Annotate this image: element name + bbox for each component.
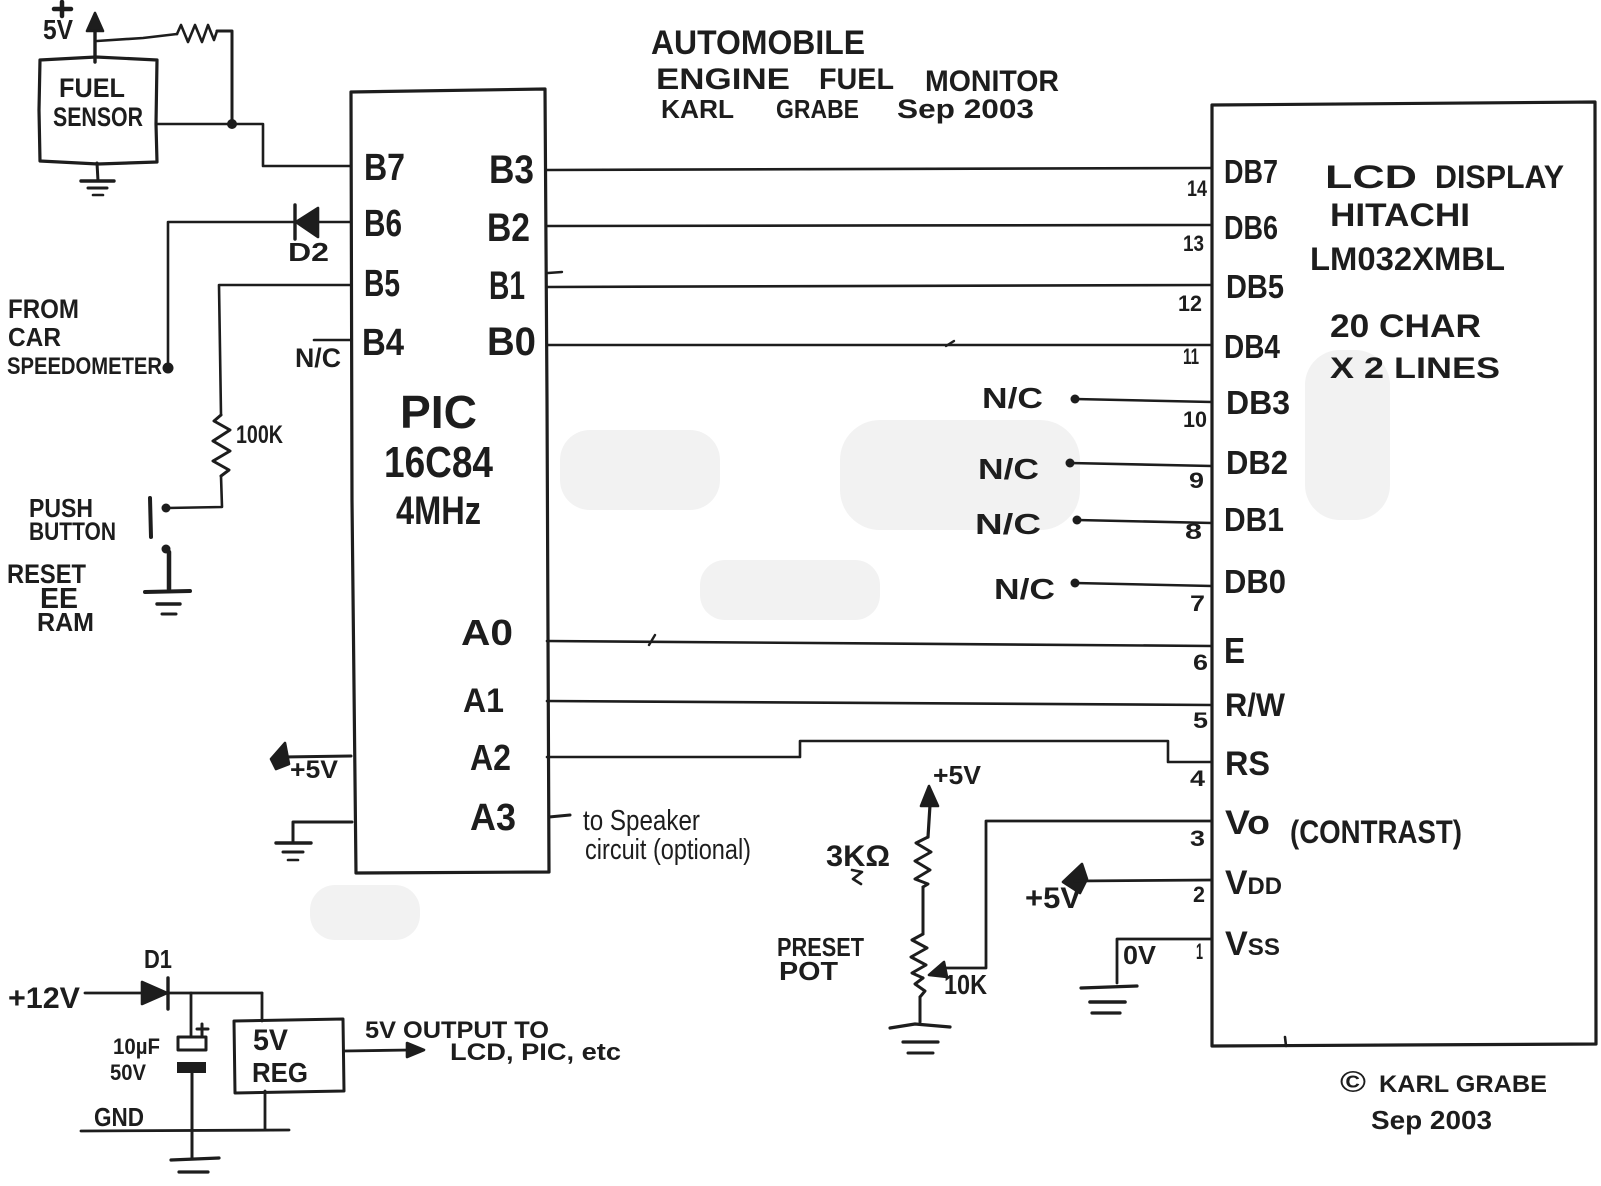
svg-text:DB4: DB4 xyxy=(1224,328,1281,365)
svg-text:circuit (optional): circuit (optional) xyxy=(585,834,751,866)
node N/C dot at DB1 xyxy=(1073,516,1082,525)
potentiometer wiper arrow xyxy=(929,962,947,977)
svg-text:5V: 5V xyxy=(253,1024,288,1057)
wire tick on B0 line xyxy=(946,341,954,346)
wire N/C to DB3 xyxy=(1075,399,1212,402)
svg-text:HITACHI: HITACHI xyxy=(1330,197,1470,233)
svg-text:N/C: N/C xyxy=(994,574,1055,606)
svg-text:20 CHAR: 20 CHAR xyxy=(1330,308,1481,344)
svg-text:9: 9 xyxy=(1189,468,1204,493)
svg-text:+5V: +5V xyxy=(1025,882,1081,915)
resistor R2 100K xyxy=(213,415,230,476)
svg-text:N/C: N/C xyxy=(975,509,1041,541)
regulator U3 5V REG box xyxy=(234,1019,344,1093)
svg-text:©: © xyxy=(1340,1066,1366,1099)
power +5V arrow symbol top-left xyxy=(54,2,103,62)
power +5V arrow above 3K resistor xyxy=(921,786,938,837)
svg-text:11: 11 xyxy=(1183,344,1199,369)
wire nib at B1 pin xyxy=(548,272,562,273)
ground under fuel sensor xyxy=(81,163,114,195)
svg-text:10: 10 xyxy=(1183,407,1207,432)
svg-text:2: 2 xyxy=(1193,882,1205,907)
svg-text:AUTOMOBILE: AUTOMOBILE xyxy=(651,24,865,62)
potentiometer VR1 10K body xyxy=(911,934,927,978)
wire N/C to DB0 xyxy=(1075,583,1212,586)
svg-text:N/C: N/C xyxy=(295,343,341,373)
svg-text:5: 5 xyxy=(1193,708,1208,733)
svg-text:B6: B6 xyxy=(364,203,402,245)
svg-text:X 2 LINES: X 2 LINES xyxy=(1330,352,1500,385)
svg-text:A3: A3 xyxy=(470,797,516,839)
wire A3 side to ground xyxy=(293,822,352,842)
power +5V arrow at VDD xyxy=(1063,864,1212,893)
svg-text:Sep 2003: Sep 2003 xyxy=(1371,1105,1492,1135)
svg-text:Vo: Vo xyxy=(1225,804,1270,842)
ground at VSS xyxy=(1081,986,1137,1013)
wire junction to pin B7 xyxy=(232,124,351,166)
svg-text:FUEL: FUEL xyxy=(819,63,894,96)
svg-text:50V: 50V xyxy=(110,1060,146,1085)
svg-text:DB0: DB0 xyxy=(1224,563,1286,600)
svg-text:14: 14 xyxy=(1187,176,1208,201)
diode D1 xyxy=(142,978,168,1009)
capacitor C1 plus sign xyxy=(197,1024,208,1035)
svg-text:100K: 100K xyxy=(236,421,283,449)
svg-text:KARL: KARL xyxy=(661,94,734,124)
wire B3 to DB7 xyxy=(547,168,1212,170)
svg-text:0V: 0V xyxy=(1123,940,1157,970)
node N/C dot at DB0 xyxy=(1071,579,1080,588)
power +5V arrow at A2 xyxy=(271,743,351,769)
svg-text:to Speaker: to Speaker xyxy=(583,805,700,837)
svg-text:A0: A0 xyxy=(461,612,513,653)
wire VSS to ground xyxy=(1117,939,1212,983)
wire B1 to DB5 xyxy=(547,285,1212,287)
wire D2 to speedometer node xyxy=(168,222,295,367)
squiggle under 3K label xyxy=(852,870,862,884)
svg-text:3KΩ: 3KΩ xyxy=(826,840,890,873)
svg-text:+5V: +5V xyxy=(933,760,982,790)
svg-text:FUEL: FUEL xyxy=(59,73,125,103)
wire B2 to DB6 xyxy=(547,225,1212,226)
svg-text:DB6: DB6 xyxy=(1224,209,1278,246)
fuel sensor box xyxy=(39,57,157,164)
wire GND rail xyxy=(81,1130,289,1131)
wire 5V to pull-up resistor xyxy=(97,34,177,41)
svg-text:LM032XMBL: LM032XMBL xyxy=(1310,241,1505,277)
svg-text:GND: GND xyxy=(94,1102,144,1132)
svg-text:A1: A1 xyxy=(463,682,504,720)
svg-text:5V: 5V xyxy=(43,14,73,45)
wire A0 to E xyxy=(547,641,1212,646)
wire B6 to diode xyxy=(318,221,351,224)
wire junction to capacitor C1 xyxy=(190,993,193,1036)
svg-text:12: 12 xyxy=(1178,291,1202,316)
push button SW1 xyxy=(150,498,171,554)
potentiometer VR1 lower squiggle xyxy=(915,978,925,997)
svg-text:CAR: CAR xyxy=(8,322,61,352)
wire 3K to pot xyxy=(922,887,925,934)
svg-text:BUTTON: BUTTON xyxy=(29,518,116,546)
wire D1 to regulator input xyxy=(168,992,262,995)
svg-text:KARL GRABE: KARL GRABE xyxy=(1379,1071,1547,1098)
svg-text:B2: B2 xyxy=(487,206,530,250)
ground bottom left xyxy=(171,1158,219,1172)
svg-text:LCD: LCD xyxy=(1325,159,1417,195)
op-amp U2 LCD box outline xyxy=(1212,102,1596,1046)
svg-text:13: 13 xyxy=(1183,231,1204,256)
svg-text:SPEEDOMETER: SPEEDOMETER xyxy=(7,353,162,380)
node N/C dot at DB3 xyxy=(1071,395,1080,404)
svg-text:SENSOR: SENSOR xyxy=(53,102,143,132)
svg-text:4: 4 xyxy=(1190,766,1206,791)
svg-text:+12V: +12V xyxy=(8,982,80,1015)
svg-text:DB2: DB2 xyxy=(1226,444,1288,481)
wire tick on E line xyxy=(649,635,655,645)
node speedometer terminal dot xyxy=(163,363,174,374)
svg-text:DB3: DB3 xyxy=(1226,384,1290,421)
wire resistor R2 to push button xyxy=(167,476,222,508)
op-amp U1 PIC box outline xyxy=(351,89,549,873)
svg-text:8: 8 xyxy=(1185,519,1202,544)
svg-text:POT: POT xyxy=(779,956,838,986)
svg-text:3: 3 xyxy=(1190,826,1205,851)
wire B5 to resistor R2 xyxy=(219,285,351,415)
wire pot to ground xyxy=(919,997,922,1022)
wire tick on LCD bottom edge xyxy=(1285,1037,1286,1046)
svg-text:DISPLAY: DISPLAY xyxy=(1435,159,1564,195)
wire A3 speaker stub xyxy=(549,815,570,817)
svg-text:1: 1 xyxy=(1196,939,1203,964)
svg-text:B5: B5 xyxy=(364,263,400,305)
svg-text:6: 6 xyxy=(1193,650,1208,675)
svg-text:B0: B0 xyxy=(487,320,536,364)
svg-text:7: 7 xyxy=(1190,591,1205,616)
svg-text:FROM: FROM xyxy=(8,294,79,324)
svg-text:VDD: VDD xyxy=(1225,864,1282,902)
svg-text:GRABE: GRABE xyxy=(776,94,859,124)
svg-text:N/C: N/C xyxy=(978,454,1039,486)
svg-text:DB5: DB5 xyxy=(1226,268,1284,305)
svg-text:RS: RS xyxy=(1225,745,1270,783)
diode D2 xyxy=(295,205,318,239)
svg-text:E: E xyxy=(1224,630,1245,671)
wire A1 to R/W xyxy=(547,701,1212,705)
svg-text:B7: B7 xyxy=(364,147,405,189)
wire resistor to junction xyxy=(217,31,232,124)
wire N/C stub at B4 xyxy=(314,339,351,342)
svg-text:B3: B3 xyxy=(489,148,534,192)
wire sensor output to junction xyxy=(157,123,232,126)
svg-text:RAM: RAM xyxy=(37,607,94,637)
svg-text:R/W: R/W xyxy=(1225,687,1286,723)
ground under push button xyxy=(145,591,190,614)
svg-text:D2: D2 xyxy=(288,237,329,267)
ground at A3 xyxy=(276,843,311,860)
svg-text:B4: B4 xyxy=(362,322,404,364)
capacitor C1 bottom plate xyxy=(177,1062,206,1073)
resistor R3 3K xyxy=(915,837,931,887)
capacitor C1 top plate xyxy=(178,1037,206,1050)
wire B0 to DB4 xyxy=(547,344,1212,347)
svg-text:VSS: VSS xyxy=(1225,925,1280,963)
svg-text:PIC: PIC xyxy=(400,386,477,438)
svg-text:DB1: DB1 xyxy=(1224,501,1284,538)
svg-text:16C84: 16C84 xyxy=(384,438,493,487)
svg-text:REG: REG xyxy=(252,1057,308,1088)
wire regulator output with arrow xyxy=(344,1043,424,1057)
svg-text:N/C: N/C xyxy=(982,383,1043,415)
resistor R1 pull-up xyxy=(177,25,217,42)
node N/C dot at DB2 xyxy=(1066,459,1075,468)
svg-text:(CONTRAST): (CONTRAST) xyxy=(1290,814,1462,850)
svg-text:10µF: 10µF xyxy=(113,1034,160,1059)
wire A2 to RS xyxy=(547,741,1212,762)
svg-text:LCD, PIC, etc: LCD, PIC, etc xyxy=(450,1039,621,1066)
wire regulator to ground rail xyxy=(264,1091,267,1130)
wire push button to ground xyxy=(167,552,172,589)
svg-text:B1: B1 xyxy=(489,264,525,308)
ground under pot xyxy=(890,1024,950,1053)
svg-text:10K: 10K xyxy=(944,969,987,1000)
node junction dot fuel sensor output xyxy=(227,119,237,129)
wire capacitor to ground rail xyxy=(191,1073,194,1158)
wire N/C to DB2 xyxy=(1070,463,1212,466)
svg-text:DB7: DB7 xyxy=(1224,153,1278,190)
svg-text:D1: D1 xyxy=(144,944,172,974)
svg-text:A2: A2 xyxy=(470,737,511,778)
svg-text:+5V: +5V xyxy=(290,756,338,784)
wire down into regulator xyxy=(261,993,264,1021)
wire +12V to D1 xyxy=(85,992,142,995)
wire N/C to DB1 xyxy=(1077,520,1212,523)
wire wiper to Vo pin 3 xyxy=(941,821,1212,968)
svg-text:ENGINE: ENGINE xyxy=(656,63,790,96)
svg-text:Sep 2003: Sep 2003 xyxy=(897,94,1034,124)
svg-text:4MHz: 4MHz xyxy=(396,489,481,533)
